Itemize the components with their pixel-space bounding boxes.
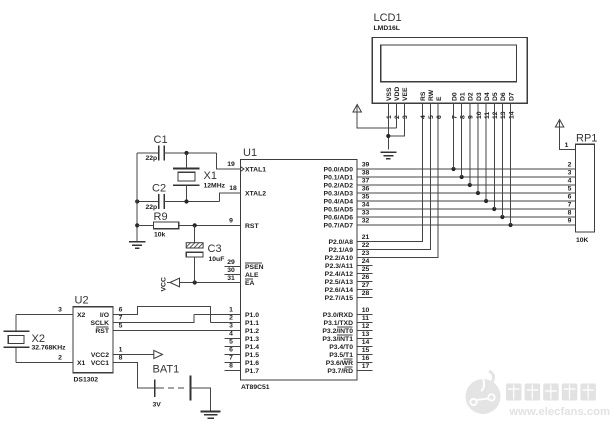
IC U2 (DS1302 RTC body) bbox=[73, 307, 113, 373]
svg-text:8: 8 bbox=[119, 355, 123, 362]
wire U2 I/O pin 6 step-over to P1.1 bbox=[113, 307, 211, 323]
svg-text:P3.1/TXD: P3.1/TXD bbox=[324, 320, 354, 327]
node junction D2 on P0.2 bbox=[468, 183, 472, 187]
svg-text:1: 1 bbox=[119, 347, 123, 354]
node junction D1 on P0.1 bbox=[460, 175, 464, 179]
svg-text:RP1: RP1 bbox=[576, 133, 597, 145]
node junction C1/X1 bbox=[184, 151, 188, 155]
svg-text:X1: X1 bbox=[77, 360, 86, 367]
svg-text:P2.2/A10: P2.2/A10 bbox=[325, 255, 354, 262]
svg-text:P1.4: P1.4 bbox=[245, 344, 259, 351]
svg-text:10: 10 bbox=[362, 307, 370, 314]
svg-text:16: 16 bbox=[362, 355, 370, 362]
svg-text:3: 3 bbox=[58, 307, 62, 314]
svg-text:31: 31 bbox=[227, 275, 235, 282]
svg-text:X2: X2 bbox=[77, 312, 86, 319]
svg-text:30: 30 bbox=[227, 267, 235, 274]
svg-text:11: 11 bbox=[362, 315, 369, 322]
stub PSEN pin 29 bbox=[225, 266, 241, 268]
svg-text:AT89C51: AT89C51 bbox=[241, 384, 270, 391]
wire P1.0 pin 1 from SCLK riser bbox=[194, 314, 241, 316]
power VCC (LCD VDD) up arrow bbox=[353, 105, 361, 113]
svg-text:22p: 22p bbox=[146, 155, 158, 162]
svg-text:9: 9 bbox=[468, 115, 475, 119]
svg-text:P0.0/AD0: P0.0/AD0 bbox=[324, 167, 354, 174]
stub P1.5 pin 6 bbox=[225, 354, 241, 356]
svg-text:21: 21 bbox=[362, 234, 370, 241]
svg-text:P0.5/AD5: P0.5/AD5 bbox=[324, 207, 354, 214]
svg-text:14: 14 bbox=[508, 111, 515, 119]
svg-text:10K: 10K bbox=[576, 237, 589, 244]
stub P2.4 pin 25 bbox=[357, 273, 373, 275]
watermark logo bbox=[466, 371, 501, 414]
stub P1.3 pin 4 bbox=[225, 338, 241, 340]
svg-text:P1.2: P1.2 bbox=[245, 328, 259, 335]
wire P0.6/AD6 pin 33 to RP1 pin 8 bbox=[357, 216, 575, 218]
wire XTAL1 pin 19 into U1 bbox=[217, 153, 241, 169]
svg-text:P1.1: P1.1 bbox=[245, 320, 259, 327]
power VCC (U2 VCC2) right arrow bbox=[154, 350, 163, 358]
svg-text:P3.2/INT0: P3.2/INT0 bbox=[322, 328, 353, 335]
svg-text:13: 13 bbox=[362, 331, 370, 338]
wire U2 X1 pin 2 bbox=[16, 362, 73, 364]
wire LCD D5 down to P0.5 bbox=[493, 103, 495, 209]
svg-text:15: 15 bbox=[362, 347, 370, 354]
svg-text:29: 29 bbox=[227, 259, 235, 266]
wire VCC arrow to VDD bbox=[357, 112, 396, 129]
wire LCD D6 down to P0.6 bbox=[501, 103, 503, 217]
stub P3.0 pin 10 bbox=[357, 314, 373, 316]
svg-text:EA: EA bbox=[245, 280, 255, 287]
power VCC (RP1) up arrow bbox=[555, 120, 563, 128]
wire LCD D1 down to P0.1 bbox=[461, 103, 463, 177]
svg-text:BAT1: BAT1 bbox=[153, 364, 180, 376]
crystal X2 bbox=[4, 330, 30, 332]
stub P2.7 pin 28 bbox=[357, 297, 373, 299]
svg-text:P3.3/INT1: P3.3/INT1 bbox=[322, 336, 353, 343]
svg-text:9: 9 bbox=[568, 217, 572, 224]
capacitor C3 (polarized) bbox=[194, 225, 196, 242]
wire XTAL2 pin 18 into U1 bbox=[220, 193, 241, 202]
node junction VSS/VEE bbox=[386, 134, 390, 138]
stub P3.1 pin 11 bbox=[357, 322, 373, 324]
stub P3.7 pin 17 bbox=[357, 370, 373, 372]
stub P2.5 pin 26 bbox=[357, 281, 373, 283]
svg-text:X1: X1 bbox=[204, 170, 217, 182]
wire P2.1/A9 pin 22 to LCD column bbox=[357, 103, 430, 249]
svg-text:RS: RS bbox=[420, 91, 427, 101]
svg-text:D6: D6 bbox=[500, 92, 507, 101]
svg-text:LMD16L: LMD16L bbox=[374, 25, 400, 32]
svg-text:D4: D4 bbox=[484, 92, 491, 101]
node junction D0 on P0.0 bbox=[451, 167, 455, 171]
svg-text:D5: D5 bbox=[492, 92, 499, 101]
svg-text:P1.0: P1.0 bbox=[245, 312, 259, 319]
wire U2 SCLK pin 7 riser to P1.0 bbox=[113, 315, 194, 323]
svg-text:P2.4/A12: P2.4/A12 bbox=[325, 271, 354, 278]
wire P0.1/AD1 pin 38 to RP1 pin 3 bbox=[357, 176, 575, 178]
wire LCD VDD down to VCC bbox=[395, 103, 397, 128]
stub P3.4 pin 14 bbox=[357, 346, 373, 348]
svg-text:VEE: VEE bbox=[402, 87, 409, 101]
stub P2.6 pin 27 bbox=[357, 289, 373, 291]
svg-text:RW: RW bbox=[428, 89, 435, 101]
wire EA pin 31 from VCC arrow to U1 bbox=[180, 282, 241, 284]
svg-text:4: 4 bbox=[568, 177, 572, 184]
svg-text:1: 1 bbox=[565, 142, 569, 149]
svg-text:P0.6/AD6: P0.6/AD6 bbox=[324, 215, 354, 222]
svg-text:D3: D3 bbox=[476, 92, 483, 101]
svg-text:1: 1 bbox=[386, 115, 393, 119]
wire P0.5/AD5 pin 34 to RP1 pin 7 bbox=[357, 208, 575, 210]
svg-text:U2: U2 bbox=[75, 295, 89, 307]
svg-text:25: 25 bbox=[362, 266, 370, 273]
svg-text:P2.6/A14: P2.6/A14 bbox=[325, 287, 354, 294]
svg-text:DS1302: DS1302 bbox=[74, 377, 99, 384]
svg-text:3V: 3V bbox=[153, 402, 162, 409]
wire C2 to XTAL2 corner bbox=[187, 201, 220, 203]
node junction D5 on P0.5 bbox=[492, 207, 496, 211]
svg-text:18: 18 bbox=[229, 185, 237, 192]
wire C1 to XTAL1 corner bbox=[187, 152, 217, 154]
stub ALE pin 30 bbox=[225, 274, 241, 276]
svg-text:27: 27 bbox=[362, 282, 370, 289]
svg-text:3: 3 bbox=[402, 115, 409, 119]
svg-text:PSEN: PSEN bbox=[245, 264, 264, 271]
svg-text:P2.7/A15: P2.7/A15 bbox=[325, 295, 354, 302]
svg-text:12: 12 bbox=[362, 323, 370, 330]
svg-text:P3.5/T1: P3.5/T1 bbox=[329, 352, 353, 359]
svg-text:6: 6 bbox=[436, 115, 443, 119]
wire U2 VCC1 pin 8 to BAT1 bbox=[113, 363, 155, 389]
svg-text:11: 11 bbox=[484, 112, 491, 119]
svg-text:5: 5 bbox=[229, 339, 233, 346]
svg-text:XTAL1: XTAL1 bbox=[245, 167, 266, 174]
svg-text:10: 10 bbox=[476, 111, 483, 119]
svg-text:32: 32 bbox=[362, 217, 370, 224]
svg-text:VSS: VSS bbox=[386, 87, 393, 101]
svg-text:22: 22 bbox=[362, 242, 370, 249]
svg-text:35: 35 bbox=[362, 193, 370, 200]
svg-text:23: 23 bbox=[362, 250, 370, 257]
svg-text:6: 6 bbox=[119, 307, 123, 314]
svg-text:6: 6 bbox=[229, 347, 233, 354]
svg-text:D2: D2 bbox=[468, 92, 475, 101]
svg-text:8: 8 bbox=[568, 209, 572, 216]
svg-text:C3: C3 bbox=[208, 243, 222, 255]
node junction D3 on P0.3 bbox=[476, 191, 480, 195]
svg-text:P1.3: P1.3 bbox=[245, 336, 259, 343]
svg-text:R9: R9 bbox=[154, 211, 168, 223]
svg-text:5: 5 bbox=[428, 115, 435, 119]
svg-text:P2.0/A8: P2.0/A8 bbox=[328, 239, 353, 246]
svg-text:38: 38 bbox=[362, 169, 370, 176]
svg-text:36: 36 bbox=[362, 185, 370, 192]
svg-text:P1.6: P1.6 bbox=[245, 360, 259, 367]
wire BAT1 to ground bbox=[191, 388, 211, 412]
node junction C2/X1 bbox=[184, 199, 188, 203]
svg-text:37: 37 bbox=[362, 177, 370, 184]
svg-text:P1.7: P1.7 bbox=[245, 368, 259, 375]
svg-text:17: 17 bbox=[362, 363, 370, 370]
wire LCD D2 down to P0.2 bbox=[469, 103, 471, 185]
svg-text:33: 33 bbox=[362, 209, 370, 216]
LCD module LCD1 body bbox=[372, 38, 527, 104]
wire LCD VSS down to ground bbox=[387, 103, 389, 149]
svg-text:4: 4 bbox=[420, 115, 427, 119]
stub P1.4 pin 5 bbox=[225, 346, 241, 348]
crystal X1 bbox=[173, 168, 199, 170]
svg-text:7: 7 bbox=[568, 201, 572, 208]
svg-text:13: 13 bbox=[500, 111, 507, 119]
svg-text:39: 39 bbox=[362, 161, 370, 168]
wire LCD D7 down to P0.7 bbox=[510, 103, 512, 225]
svg-text:RST: RST bbox=[95, 328, 109, 335]
svg-text:U1: U1 bbox=[243, 147, 257, 159]
svg-text:D0: D0 bbox=[451, 92, 458, 101]
svg-text:P3.4/T0: P3.4/T0 bbox=[329, 344, 353, 351]
svg-text:1: 1 bbox=[229, 307, 233, 314]
svg-text:LCD1: LCD1 bbox=[374, 12, 402, 24]
svg-text:7: 7 bbox=[119, 315, 123, 322]
svg-text:19: 19 bbox=[227, 161, 235, 168]
svg-text:32.768KHz: 32.768KHz bbox=[32, 345, 67, 352]
ground left rail bbox=[129, 241, 146, 243]
svg-text:12: 12 bbox=[492, 111, 499, 119]
stub P3.3 pin 13 bbox=[357, 338, 373, 340]
svg-text:X2: X2 bbox=[32, 333, 45, 345]
node junction R9/C3/RST bbox=[193, 223, 197, 227]
svg-text:RST: RST bbox=[245, 223, 259, 230]
wire P0.0/AD0 pin 39 to RP1 pin 2 bbox=[357, 168, 575, 170]
wire P0.4/AD4 pin 35 to RP1 pin 6 bbox=[357, 200, 575, 202]
svg-text:7: 7 bbox=[229, 355, 233, 362]
svg-text:22p: 22p bbox=[146, 204, 158, 211]
svg-text:P3.7/RD: P3.7/RD bbox=[327, 368, 353, 375]
svg-text:P2.5/A13: P2.5/A13 bbox=[325, 279, 354, 286]
wire LCD VEE down, over to VSS bbox=[388, 103, 404, 136]
svg-text:6: 6 bbox=[568, 193, 572, 200]
wire U2 VCC2 pin 1 to VCC arrow bbox=[113, 354, 154, 356]
svg-text:C2: C2 bbox=[152, 183, 166, 195]
svg-text:VCC1: VCC1 bbox=[91, 360, 109, 367]
node junction rail/R9 bbox=[135, 223, 139, 227]
XTAL1 pin marker bbox=[241, 167, 244, 171]
wire P1.1 pin 2 from I/O riser bbox=[211, 322, 241, 324]
svg-text:3: 3 bbox=[568, 169, 572, 176]
node junction D4 on P0.4 bbox=[484, 199, 488, 203]
capacitor C2 bbox=[158, 194, 160, 209]
svg-text:8: 8 bbox=[229, 363, 233, 370]
svg-text:12MHz: 12MHz bbox=[204, 183, 226, 190]
stub P3.6 pin 16 bbox=[357, 362, 373, 364]
wire LCD D0 down to P0.0 bbox=[453, 103, 455, 169]
svg-text:P2.1/A9: P2.1/A9 bbox=[328, 247, 353, 254]
op-amp U1 (AT89C51 MCU body) bbox=[241, 160, 358, 381]
svg-text:ALE: ALE bbox=[245, 272, 259, 279]
wire LCD D4 down to P0.4 bbox=[485, 103, 487, 201]
power VCC (EA) left arrow bbox=[170, 278, 180, 287]
svg-text:4: 4 bbox=[229, 331, 233, 338]
svg-text:7: 7 bbox=[451, 115, 458, 119]
wire U2 X2 pin 3 bbox=[16, 314, 73, 316]
node junction D7 on P0.7 bbox=[508, 223, 512, 227]
svg-text:VDD: VDD bbox=[394, 87, 401, 101]
wire P1.2 pin 3 from U2 RST bbox=[113, 330, 241, 332]
resistor R9 bbox=[154, 222, 179, 229]
wire P0.2/AD2 pin 37 to RP1 pin 4 bbox=[357, 184, 575, 186]
svg-text:I/O: I/O bbox=[100, 312, 109, 319]
wire P0.3/AD3 pin 36 to RP1 pin 5 bbox=[357, 192, 575, 194]
svg-text:26: 26 bbox=[362, 274, 370, 281]
resistor pack RP1 bbox=[575, 144, 594, 232]
LCD1 display window bbox=[381, 45, 517, 82]
ground LCD VSS/VEE bbox=[380, 151, 396, 153]
capacitor C1 bbox=[158, 145, 160, 160]
stub P3.5 pin 15 bbox=[357, 354, 373, 356]
wire P2.2/A10 pin 23 to LCD column bbox=[357, 103, 438, 257]
svg-text:2: 2 bbox=[58, 355, 62, 362]
svg-text:24: 24 bbox=[362, 258, 370, 265]
svg-text:D1: D1 bbox=[460, 92, 467, 101]
node junction D6 on P0.6 bbox=[500, 215, 504, 219]
wire P2.0/A8 pin 21 to LCD column bbox=[357, 103, 422, 241]
wire P0.7/AD7 pin 32 to RP1 pin 9 bbox=[357, 224, 575, 226]
svg-text:P0.1/AD1: P0.1/AD1 bbox=[324, 175, 354, 182]
svg-text:14: 14 bbox=[362, 339, 370, 346]
watermark text 电子发烧友 bbox=[506, 384, 596, 401]
svg-text:P1.5: P1.5 bbox=[245, 352, 259, 359]
wire RST pin 9 from R9 to U1 bbox=[179, 224, 241, 226]
ground BAT1 bbox=[201, 411, 221, 413]
svg-text:10uF: 10uF bbox=[209, 256, 225, 263]
node junction C3/EA bbox=[193, 280, 197, 284]
svg-text:8: 8 bbox=[460, 115, 467, 119]
svg-text:P2.3/A11: P2.3/A11 bbox=[325, 263, 353, 270]
svg-text:P3.0/RXD: P3.0/RXD bbox=[323, 312, 353, 319]
svg-text:9: 9 bbox=[229, 217, 233, 224]
svg-text:XTAL2: XTAL2 bbox=[245, 191, 266, 198]
svg-text:VCC2: VCC2 bbox=[91, 352, 109, 359]
stub P3.2 pin 12 bbox=[357, 330, 373, 332]
svg-text:P0.7/AD7: P0.7/AD7 bbox=[324, 223, 354, 230]
wire left rail bbox=[136, 153, 138, 242]
svg-text:SCLK: SCLK bbox=[90, 320, 109, 327]
svg-text:5: 5 bbox=[568, 185, 572, 192]
svg-text:P0.4/AD4: P0.4/AD4 bbox=[324, 199, 354, 206]
svg-text:2: 2 bbox=[394, 115, 401, 119]
stub P1.6 pin 7 bbox=[225, 362, 241, 364]
svg-text:E: E bbox=[436, 96, 443, 101]
svg-text:VCC: VCC bbox=[161, 277, 168, 291]
svg-text:C1: C1 bbox=[154, 134, 168, 146]
svg-text:2: 2 bbox=[229, 315, 233, 322]
svg-text:P0.3/AD3: P0.3/AD3 bbox=[324, 191, 354, 198]
wire LCD D3 down to P0.3 bbox=[477, 103, 479, 193]
svg-text:34: 34 bbox=[362, 201, 370, 208]
svg-text:D7: D7 bbox=[508, 92, 515, 101]
svg-text:10k: 10k bbox=[154, 232, 166, 239]
wire RP1 pin 1 to VCC bbox=[560, 127, 576, 150]
svg-text:28: 28 bbox=[362, 290, 370, 297]
svg-text:2: 2 bbox=[568, 161, 572, 168]
svg-text:www.elecfans.com: www.elecfans.com bbox=[508, 406, 610, 418]
node junction rail/C2 bbox=[135, 199, 139, 203]
stub P2.3 pin 24 bbox=[357, 265, 373, 267]
svg-text:P3.6/WR: P3.6/WR bbox=[326, 360, 353, 367]
svg-text:P0.2/AD2: P0.2/AD2 bbox=[324, 183, 354, 190]
svg-text:3: 3 bbox=[229, 323, 233, 330]
svg-text:5: 5 bbox=[119, 323, 123, 330]
stub P1.7 pin 8 bbox=[225, 370, 241, 372]
